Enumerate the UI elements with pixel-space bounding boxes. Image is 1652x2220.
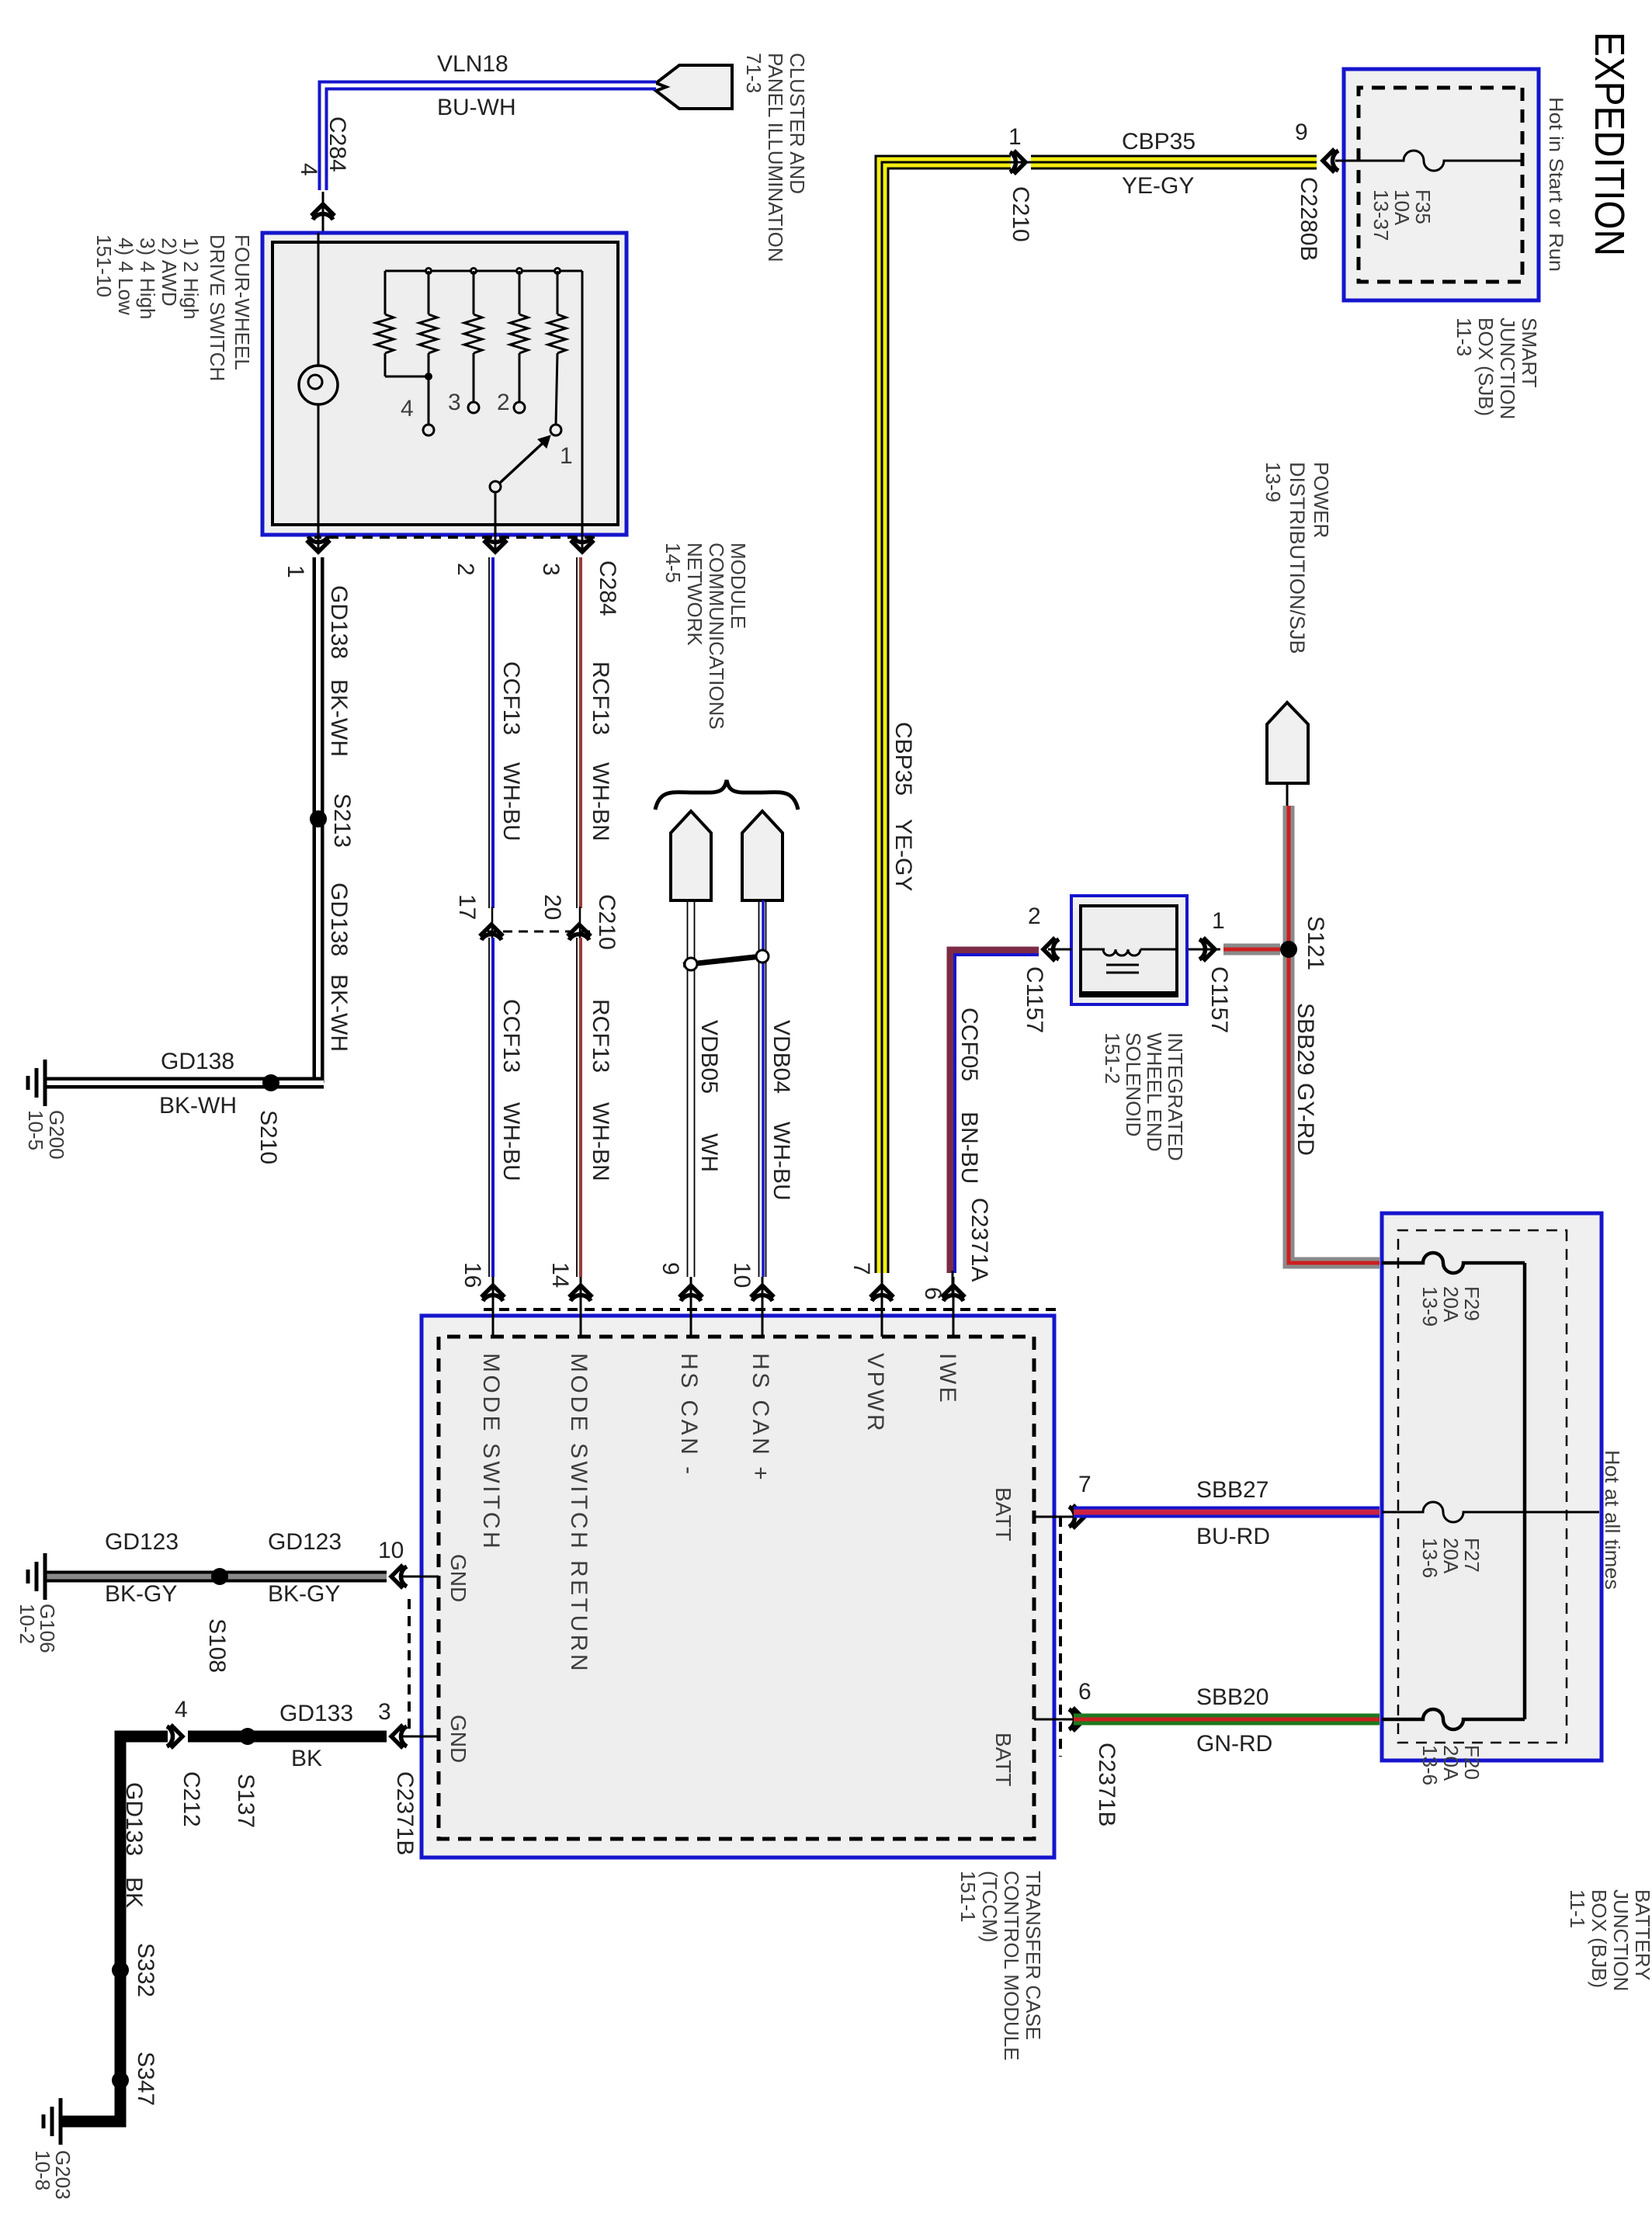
svg-text:G106: G106 bbox=[36, 1604, 59, 1653]
svg-text:WH-BN: WH-BN bbox=[588, 1102, 613, 1181]
svg-text:MODULE: MODULE bbox=[727, 543, 750, 629]
svg-text:13-9: 13-9 bbox=[1262, 462, 1285, 502]
svg-text:BK-WH: BK-WH bbox=[159, 1093, 237, 1119]
svg-text:WHEEL END: WHEEL END bbox=[1143, 1032, 1166, 1152]
svg-text:BK-WH: BK-WH bbox=[326, 974, 352, 1052]
svg-text:G200: G200 bbox=[45, 1110, 68, 1160]
svg-text:C284: C284 bbox=[324, 116, 350, 172]
C284 pin 3 arrow bbox=[538, 535, 594, 576]
svg-text:2: 2 bbox=[453, 563, 478, 576]
svg-text:2: 2 bbox=[497, 390, 510, 415]
svg-text:7: 7 bbox=[1078, 1472, 1091, 1497]
svg-text:JUNCTION: JUNCTION bbox=[1496, 317, 1519, 419]
svg-text:EXPEDITION: EXPEDITION bbox=[1586, 32, 1633, 256]
resistor R3 (contact 3) bbox=[464, 271, 482, 413]
bus junction dots bbox=[425, 267, 561, 275]
fuse F27 20A bbox=[1382, 1502, 1599, 1522]
fuse F35 10A bbox=[1344, 151, 1522, 171]
svg-text:20A: 20A bbox=[1439, 1286, 1463, 1323]
resistor R4 (contact 2) bbox=[510, 271, 528, 413]
svg-text:C210: C210 bbox=[1008, 186, 1033, 242]
battery junction box BJB bbox=[1382, 1213, 1602, 1760]
svg-text:GD123: GD123 bbox=[268, 1529, 342, 1555]
svg-text:3: 3 bbox=[538, 563, 564, 576]
svg-text:BATT: BATT bbox=[991, 1733, 1015, 1786]
svg-text:151-1: 151-1 bbox=[956, 1871, 980, 1923]
wire S121 to C1157 pin1 (GY-RD) bbox=[1223, 944, 1280, 956]
connector C284 pin 4 arrow into switch bbox=[296, 116, 350, 233]
svg-text:S213: S213 bbox=[329, 793, 355, 848]
wire GD133 BK upper bbox=[188, 1731, 387, 1743]
svg-text:151-2: 151-2 bbox=[1101, 1032, 1124, 1084]
svg-text:1: 1 bbox=[1008, 124, 1022, 150]
wire GD123 BK-GY bbox=[45, 1571, 387, 1583]
svg-text:4: 4 bbox=[175, 1697, 188, 1722]
wire GD138 corner down to ground bbox=[45, 1077, 324, 1089]
TCCM pin 16 arrow bbox=[460, 1262, 505, 1337]
rotary switch arm bbox=[490, 435, 550, 492]
svg-text:10A: 10A bbox=[1390, 189, 1414, 226]
svg-text:C2280B: C2280B bbox=[1296, 177, 1321, 261]
svg-text:RCF13: RCF13 bbox=[588, 661, 613, 735]
svg-text:FOUR-WHEEL: FOUR-WHEEL bbox=[231, 234, 254, 370]
TCCM pin 7 arrow bbox=[849, 1262, 894, 1337]
svg-text:BOX (SJB): BOX (SJB) bbox=[1474, 317, 1498, 416]
connector C284 dashed line bbox=[314, 536, 595, 539]
svg-text:71-3: 71-3 bbox=[742, 53, 765, 93]
splice S347 bbox=[112, 2072, 129, 2089]
svg-text:1: 1 bbox=[283, 565, 308, 578]
svg-text:14: 14 bbox=[547, 1262, 573, 1288]
wire CCF13 WH-BU (C210 to TCCM pin 16) bbox=[489, 938, 493, 1277]
svg-text:TRANSFER CASE: TRANSFER CASE bbox=[1022, 1871, 1045, 2040]
label SMART JUNCTION BOX (SJB) 11-3 bbox=[1452, 317, 1541, 419]
label INTEGRATED WHEEL END SOLENOID 151-2 bbox=[1101, 1032, 1187, 1161]
TCCM pin 6 arrow bbox=[920, 1277, 965, 1337]
svg-text:6: 6 bbox=[920, 1287, 946, 1300]
svg-text:F27: F27 bbox=[1460, 1538, 1484, 1573]
svg-text:S347: S347 bbox=[133, 2052, 158, 2106]
svg-text:SBB20: SBB20 bbox=[1196, 1684, 1268, 1710]
svg-text:SBB29: SBB29 bbox=[1293, 1003, 1318, 1075]
resistor R1 (row 1 / pin3 branch) bbox=[376, 271, 429, 376]
svg-text:DISTRIBUTION/SJB: DISTRIBUTION/SJB bbox=[1286, 462, 1309, 654]
svg-text:CCF13: CCF13 bbox=[498, 999, 524, 1073]
svg-text:PANEL ILLUMINATION: PANEL ILLUMINATION bbox=[764, 53, 787, 262]
wire from arm to pin 2 bbox=[495, 492, 497, 535]
svg-text:2: 2 bbox=[1028, 904, 1041, 929]
svg-text:20: 20 bbox=[540, 894, 565, 920]
svg-text:GD133: GD133 bbox=[279, 1701, 353, 1726]
C284 pin 1 arrow bbox=[283, 535, 330, 578]
TCCM pin 10 arrow bbox=[729, 1262, 774, 1337]
svg-text:3: 3 bbox=[448, 390, 461, 415]
solenoid coil bbox=[1081, 949, 1177, 973]
integrated wheel end solenoid box bbox=[1071, 896, 1187, 1004]
wire CCF05 BN-BU to TCCM pin 6 bbox=[950, 950, 1039, 1297]
TCCM pin 6 BATT stub bbox=[1034, 1679, 1091, 1731]
svg-text:S121: S121 bbox=[1303, 916, 1328, 970]
connector C2371A dashed line bbox=[484, 1308, 1056, 1311]
svg-text:DRIVE SWITCH: DRIVE SWITCH bbox=[206, 234, 229, 381]
svg-text:BU-WH: BU-WH bbox=[437, 95, 516, 120]
svg-text:INTEGRATED: INTEGRATED bbox=[1164, 1032, 1187, 1161]
svg-text:151-10: 151-10 bbox=[92, 234, 116, 297]
splice S108 bbox=[211, 1568, 228, 1585]
svg-text:F20: F20 bbox=[1460, 1745, 1484, 1780]
transfer case control module box bbox=[422, 1316, 1054, 1858]
C1157 pin 1 arrow bbox=[1187, 908, 1232, 1033]
svg-text:10: 10 bbox=[378, 1538, 404, 1563]
connector C210 dashed line bbox=[488, 931, 590, 933]
svg-text:CONTROL MODULE: CONTROL MODULE bbox=[1000, 1871, 1023, 2061]
resistor ladder bus bbox=[385, 270, 582, 272]
svg-text:4: 4 bbox=[296, 163, 321, 176]
svg-text:Hot at all times: Hot at all times bbox=[1601, 1450, 1624, 1590]
svg-text:CLUSTER AND: CLUSTER AND bbox=[786, 53, 809, 194]
svg-text:SBB27: SBB27 bbox=[1196, 1477, 1268, 1503]
ground G106 bbox=[28, 1553, 45, 1600]
svg-text:C2371B: C2371B bbox=[392, 1771, 418, 1855]
twisted pair brace bbox=[655, 780, 798, 810]
svg-text:10-2: 10-2 bbox=[16, 1604, 39, 1644]
smart junction box SJB bbox=[1344, 69, 1539, 300]
svg-text:BOX (BJB): BOX (BJB) bbox=[1588, 1889, 1611, 1988]
C284 pin 2 arrow bbox=[453, 535, 507, 576]
svg-text:10-5: 10-5 bbox=[24, 1110, 47, 1150]
svg-text:C1157: C1157 bbox=[1206, 966, 1232, 1033]
svg-text:C2371B: C2371B bbox=[1094, 1743, 1119, 1826]
svg-text:4: 4 bbox=[401, 396, 414, 421]
svg-text:Hot in Start or Run: Hot in Start or Run bbox=[1545, 97, 1567, 272]
svg-text:7: 7 bbox=[849, 1262, 874, 1275]
svg-text:F35: F35 bbox=[1411, 189, 1435, 224]
bus inside BJB bbox=[1523, 1263, 1527, 1719]
svg-text:1: 1 bbox=[1212, 908, 1225, 934]
lamp (illumination bulb) bbox=[299, 233, 338, 535]
wire RCF13 WH-BN (switch to C210) bbox=[577, 557, 581, 939]
svg-text:G203: G203 bbox=[51, 2150, 75, 2200]
svg-text:MODE SWITCH: MODE SWITCH bbox=[478, 1353, 504, 1551]
wire SBB29 GY-RD to BJB bbox=[1289, 806, 1380, 1263]
svg-text:14-5: 14-5 bbox=[661, 543, 685, 583]
svg-text:SMART: SMART bbox=[1518, 317, 1541, 388]
wire RCF13 WH-BN (C210 to TCCM pin 14) bbox=[577, 938, 581, 1277]
svg-text:BK: BK bbox=[291, 1746, 322, 1771]
svg-text:BK-GY: BK-GY bbox=[268, 1581, 340, 1607]
svg-text:BK: BK bbox=[121, 1877, 147, 1908]
label TRANSFER CASE CONTROL MODULE (TCCM) 151-1 bbox=[956, 1871, 1045, 2061]
svg-text:CCF05: CCF05 bbox=[956, 1008, 982, 1081]
svg-text:IWE: IWE bbox=[935, 1353, 960, 1405]
C210 pin 20 arrow bbox=[540, 894, 591, 940]
svg-text:CBP35: CBP35 bbox=[1122, 129, 1196, 154]
splice S121 bbox=[1280, 941, 1297, 958]
svg-text:GND: GND bbox=[446, 1715, 470, 1763]
label MODULE COMMUNICATIONS NETWORK 14-5 bbox=[661, 543, 750, 730]
off-page connector (VDB05) pentagon bbox=[671, 811, 711, 900]
TCCM pin 9 arrow bbox=[658, 1262, 703, 1337]
splice S332 bbox=[112, 1962, 129, 1979]
svg-text:13-37: 13-37 bbox=[1369, 189, 1393, 241]
svg-text:HS CAN -: HS CAN - bbox=[676, 1353, 702, 1477]
svg-text:YE-GY: YE-GY bbox=[890, 819, 916, 891]
fuse F29 20A bbox=[1382, 1253, 1525, 1273]
svg-text:BU-RD: BU-RD bbox=[1196, 1524, 1270, 1549]
wire GD138 BK-WH horizontal bbox=[313, 557, 324, 1083]
wire CBP35 YE-GY vertical from SJB bbox=[1031, 155, 1317, 170]
svg-text:BN-BU: BN-BU bbox=[956, 1112, 982, 1184]
off-page connector (VDB04) pentagon bbox=[742, 811, 783, 900]
svg-text:GD138: GD138 bbox=[326, 585, 352, 659]
svg-text:RCF13: RCF13 bbox=[588, 999, 613, 1073]
connector C210 pin 1 arrow on yellow wire bbox=[1008, 124, 1033, 242]
svg-text:4) 4 Low: 4) 4 Low bbox=[114, 238, 137, 315]
stub from pentagon bbox=[1286, 783, 1289, 806]
wire CCF13 WH-BU (switch to C210) bbox=[489, 557, 493, 939]
svg-text:WH-BN: WH-BN bbox=[588, 762, 613, 841]
svg-text:GND: GND bbox=[446, 1554, 470, 1602]
fuse F20 20A bbox=[1382, 1709, 1525, 1729]
svg-text:BATTERY: BATTERY bbox=[1631, 1889, 1652, 1981]
fuse F35 labels bbox=[1369, 189, 1435, 241]
svg-text:S332: S332 bbox=[133, 1943, 158, 1997]
svg-text:HS CAN +: HS CAN + bbox=[748, 1353, 773, 1483]
wire VLN18 BU-WH from cluster down then right to C284 bbox=[323, 85, 656, 190]
splice S137 bbox=[239, 1728, 256, 1745]
svg-text:11-1: 11-1 bbox=[1566, 1889, 1589, 1928]
svg-text:GN-RD: GN-RD bbox=[1196, 1731, 1272, 1757]
svg-text:F29: F29 bbox=[1460, 1286, 1484, 1321]
svg-text:S137: S137 bbox=[233, 1774, 259, 1828]
svg-text:11-3: 11-3 bbox=[1452, 317, 1476, 356]
svg-text:13-6: 13-6 bbox=[1418, 1745, 1442, 1785]
svg-text:9: 9 bbox=[658, 1262, 683, 1275]
svg-text:YE-GY: YE-GY bbox=[1122, 173, 1194, 199]
svg-text:6: 6 bbox=[1078, 1679, 1091, 1705]
TCCM pin 10 GND stub bbox=[378, 1538, 439, 1588]
svg-text:CCF13: CCF13 bbox=[498, 661, 524, 735]
svg-text:1: 1 bbox=[560, 443, 573, 469]
svg-text:C1157: C1157 bbox=[1022, 966, 1047, 1033]
wire SBB20 GN-RD bbox=[1074, 1714, 1380, 1726]
svg-text:POWER: POWER bbox=[1310, 462, 1333, 538]
svg-text:2) AWD: 2) AWD bbox=[158, 238, 181, 307]
svg-text:GD133: GD133 bbox=[121, 1782, 147, 1856]
label FOUR-WHEEL DRIVE SWITCH + positions bbox=[92, 234, 254, 381]
svg-text:13-6: 13-6 bbox=[1418, 1538, 1442, 1578]
svg-text:GY-RD: GY-RD bbox=[1293, 1083, 1318, 1156]
svg-text:16: 16 bbox=[460, 1262, 485, 1288]
TCCM pin 3 GND stub bbox=[378, 1699, 439, 1748]
C210 pin 17 arrow bbox=[454, 894, 503, 940]
svg-text:13-9: 13-9 bbox=[1418, 1286, 1442, 1327]
label CLUSTER AND PANEL ILLUMINATION 71-3 bbox=[742, 53, 809, 262]
wire GD133 BK to ground bbox=[61, 1736, 168, 2121]
wire CBP35 YE-GY continues, corner, horizontal to TCCM pin 7 bbox=[882, 162, 1011, 1297]
label BATTERY JUNCTION BOX (BJB) 11-1 bbox=[1566, 1889, 1652, 1991]
svg-text:VLN18: VLN18 bbox=[437, 51, 508, 77]
wire VDB04 WH-BU bbox=[759, 900, 766, 1277]
svg-text:C2371A: C2371A bbox=[967, 1198, 992, 1282]
svg-text:GD123: GD123 bbox=[105, 1529, 179, 1555]
svg-text:BK-WH: BK-WH bbox=[326, 679, 352, 757]
ground G203 bbox=[43, 2098, 61, 2145]
svg-text:WH: WH bbox=[696, 1133, 722, 1172]
svg-text:S108: S108 bbox=[204, 1618, 230, 1673]
svg-text:20A: 20A bbox=[1439, 1745, 1463, 1781]
svg-text:GD138: GD138 bbox=[161, 1049, 234, 1074]
svg-text:BK-GY: BK-GY bbox=[105, 1581, 177, 1607]
TCCM pin 7 BATT stub bbox=[1034, 1472, 1091, 1528]
svg-text:NETWORK: NETWORK bbox=[683, 543, 706, 647]
svg-text:GD138: GD138 bbox=[326, 883, 352, 956]
splice S210 bbox=[262, 1074, 279, 1091]
C1157 pin 2 arrow bbox=[1022, 904, 1071, 1033]
svg-text:9: 9 bbox=[1295, 120, 1308, 145]
svg-text:10: 10 bbox=[729, 1262, 755, 1288]
svg-text:WH-BU: WH-BU bbox=[498, 1102, 524, 1181]
connector C2371B dashed line (top) bbox=[1059, 1517, 1062, 1757]
resistor R5 (contact 1) bbox=[548, 271, 566, 435]
TCCM pin 14 arrow bbox=[547, 1262, 592, 1337]
svg-text:20A: 20A bbox=[1439, 1538, 1463, 1574]
svg-text:BATT: BATT bbox=[991, 1487, 1015, 1541]
svg-text:(TCCM): (TCCM) bbox=[978, 1871, 1001, 1942]
cluster off-page connector (pentagon pointing down) bbox=[656, 65, 732, 109]
svg-text:WH-BU: WH-BU bbox=[498, 762, 524, 841]
connector C2371B dashed line (bottom) bbox=[408, 1599, 411, 1731]
resistor R2 (contact 4) bbox=[419, 271, 437, 435]
svg-text:SOLENOID: SOLENOID bbox=[1122, 1032, 1145, 1136]
wire VDB05 WH bbox=[688, 900, 695, 1277]
power off-page connector pentagon bbox=[1267, 702, 1308, 783]
wire SBB27 BU-RD bbox=[1074, 1507, 1380, 1518]
svg-text:S210: S210 bbox=[255, 1110, 281, 1164]
connector C212 pin 4 arrow bbox=[167, 1697, 204, 1827]
svg-text:10-8: 10-8 bbox=[31, 2150, 54, 2191]
four-wheel drive switch box bbox=[262, 233, 626, 535]
svg-text:WH-BU: WH-BU bbox=[769, 1122, 794, 1201]
connector C2280B pin 9 arrow bbox=[1295, 120, 1344, 261]
svg-text:CBP35: CBP35 bbox=[890, 722, 916, 796]
label POWER DISTRIBUTION/SJB 13-9 bbox=[1262, 462, 1333, 654]
svg-text:C284: C284 bbox=[595, 560, 620, 616]
svg-text:C210: C210 bbox=[594, 894, 619, 950]
svg-text:3: 3 bbox=[378, 1699, 391, 1725]
svg-text:17: 17 bbox=[454, 894, 480, 920]
ground G200 bbox=[28, 1060, 45, 1106]
svg-text:MODE SWITCH RETURN: MODE SWITCH RETURN bbox=[566, 1353, 592, 1674]
wire bus corner to pin 3 bbox=[581, 271, 584, 535]
svg-text:3) 4 High: 3) 4 High bbox=[136, 238, 159, 320]
splice S213 bbox=[310, 810, 327, 827]
svg-text:C212: C212 bbox=[179, 1771, 204, 1827]
svg-text:VDB05: VDB05 bbox=[696, 1020, 722, 1094]
svg-text:VDB04: VDB04 bbox=[769, 1020, 794, 1094]
svg-text:1) 2 High: 1) 2 High bbox=[179, 238, 203, 320]
svg-text:VPWR: VPWR bbox=[862, 1353, 888, 1434]
twisted pair crossover bbox=[683, 950, 769, 970]
svg-text:COMMUNICATIONS: COMMUNICATIONS bbox=[705, 543, 728, 730]
svg-text:JUNCTION: JUNCTION bbox=[1609, 1889, 1633, 1991]
